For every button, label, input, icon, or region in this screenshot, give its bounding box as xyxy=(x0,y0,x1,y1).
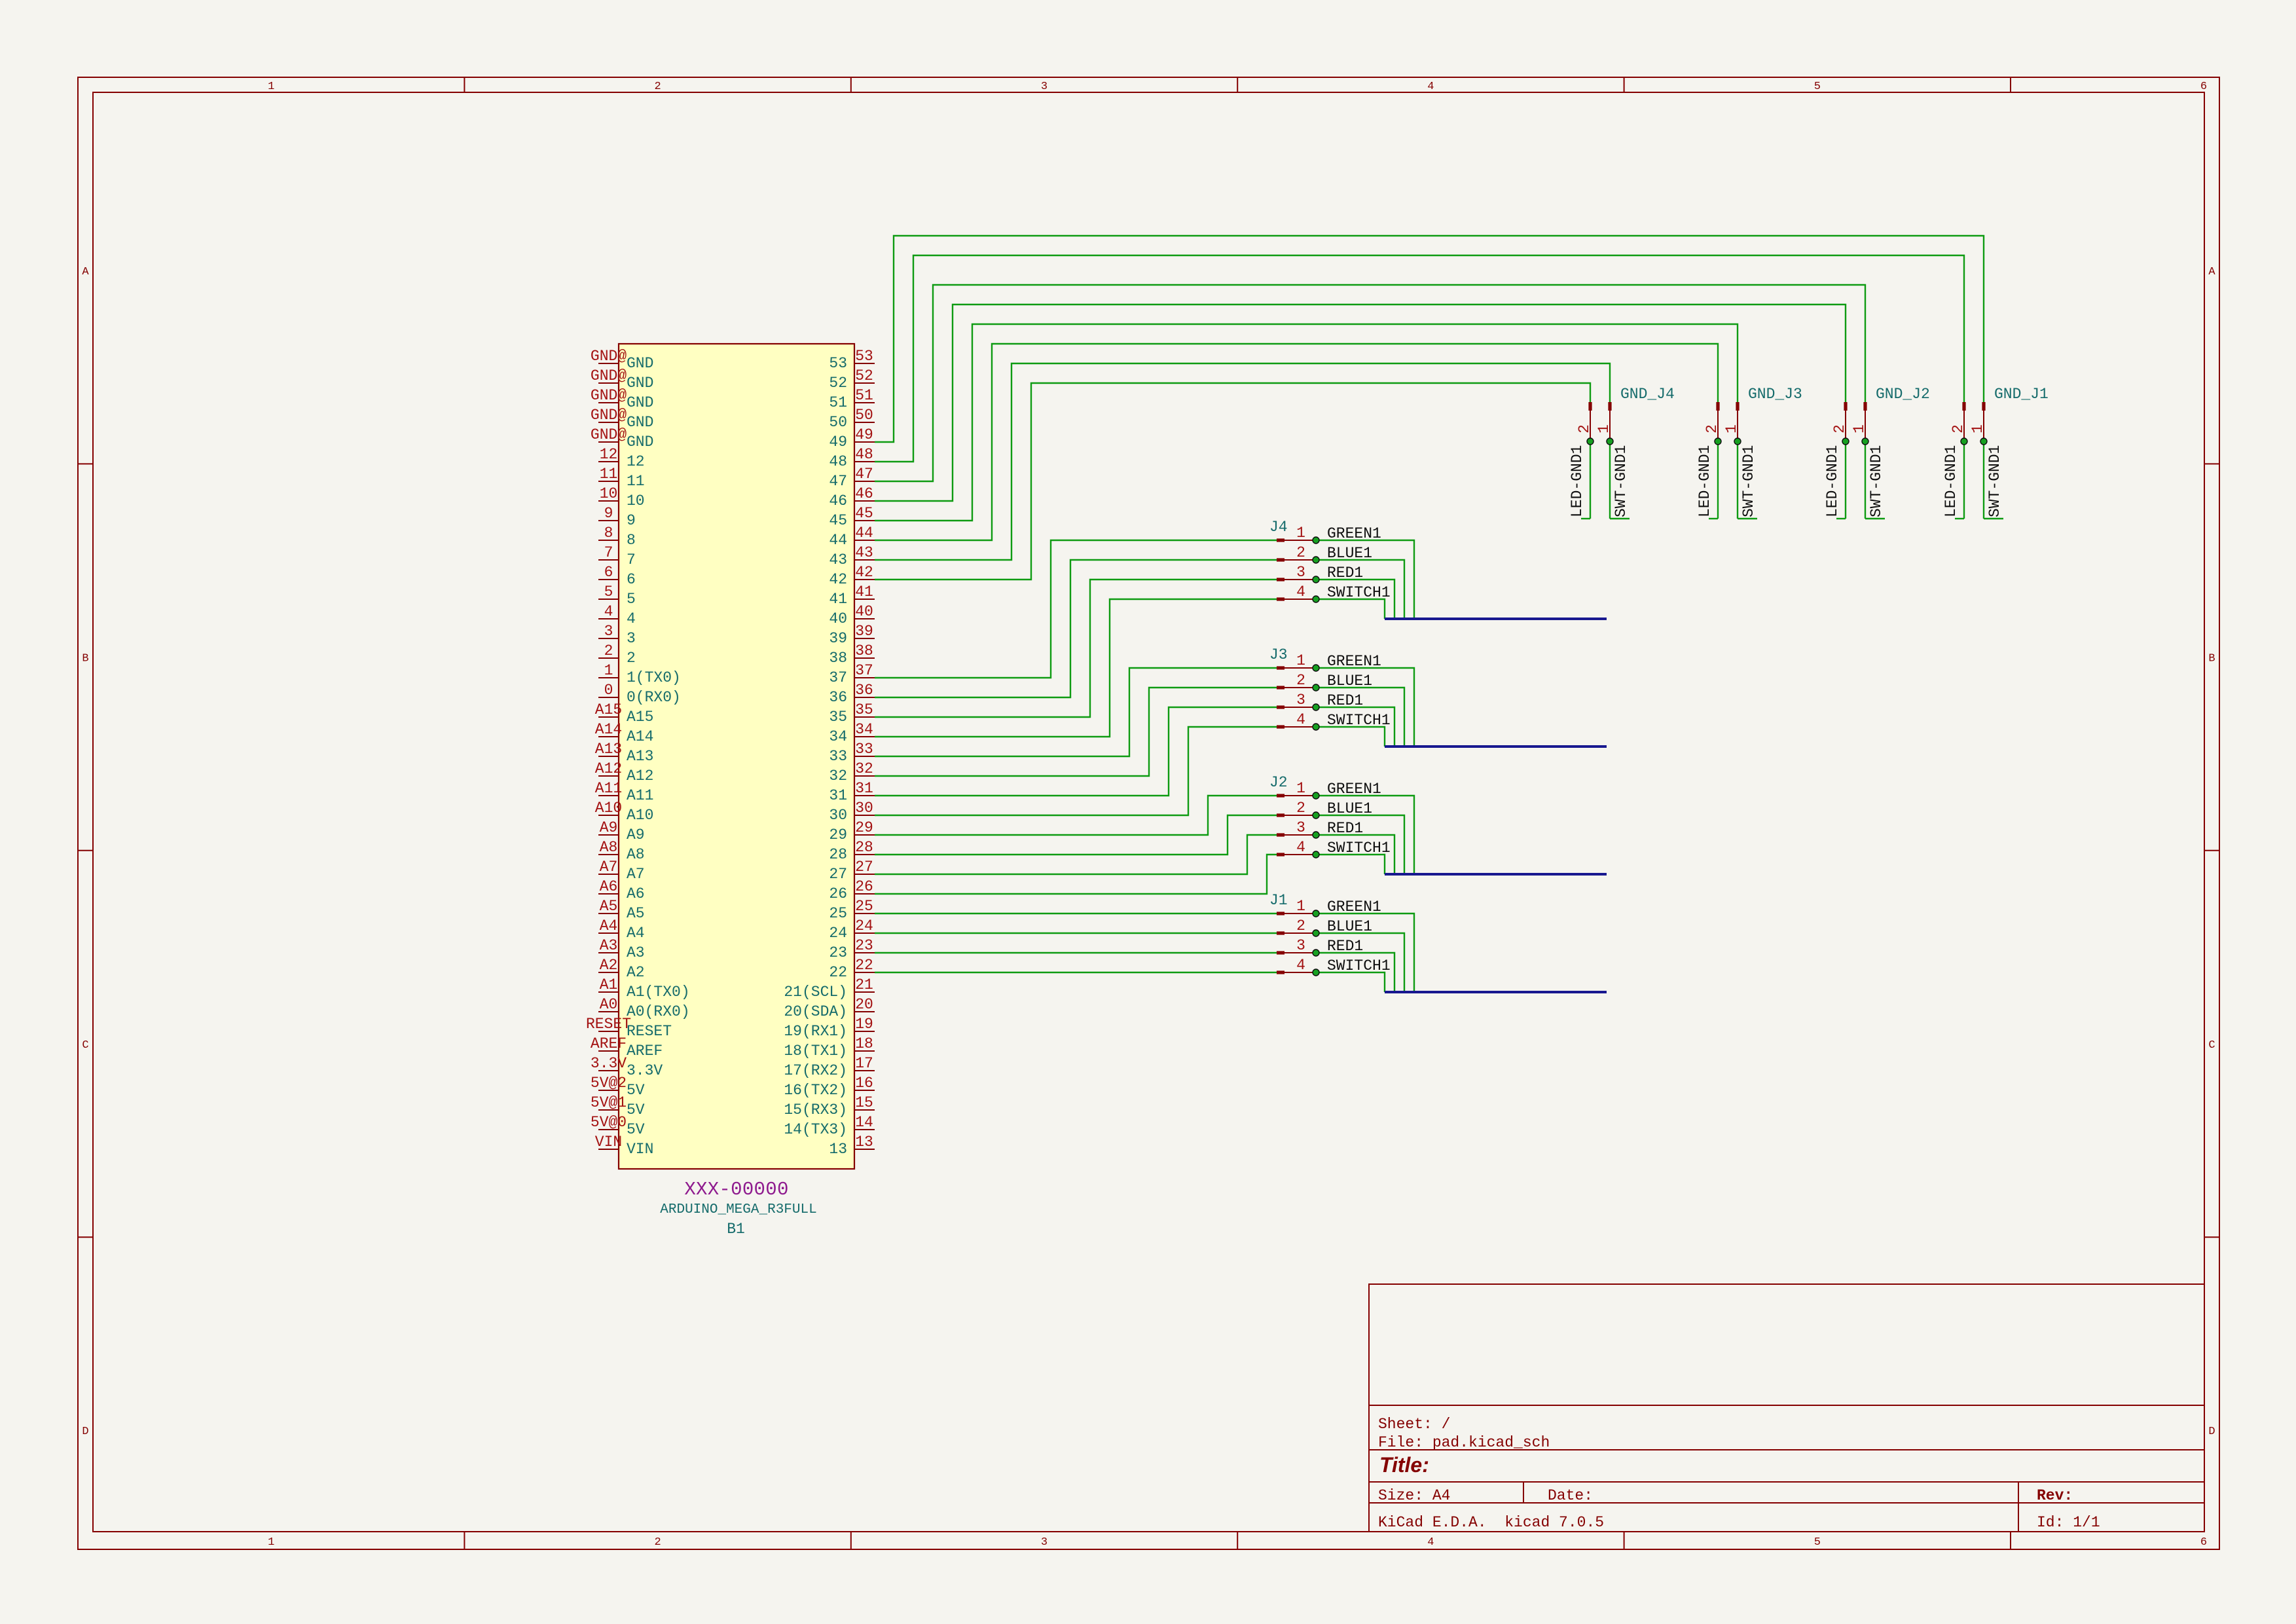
B1 right pin 19 (19(RX1)) xyxy=(854,1031,875,1032)
svg-text:26: 26 xyxy=(829,885,847,902)
svg-text:Sheet: /: Sheet: / xyxy=(1378,1416,1450,1433)
GND_J2 pin 1 xyxy=(1863,402,1867,411)
svg-text:30: 30 xyxy=(829,807,847,824)
svg-text:1: 1 xyxy=(1296,652,1305,669)
wire stub at SWT-GND1 label (GND_J1) xyxy=(1984,518,2003,519)
svg-text:3: 3 xyxy=(1296,564,1305,581)
svg-text:43: 43 xyxy=(829,551,847,568)
svg-text:D: D xyxy=(2208,1426,2215,1438)
wire pin49 to GND_J1 pin1 (SWT-GND1) xyxy=(875,236,1984,442)
svg-text:A6: A6 xyxy=(600,878,618,895)
B1 right pin 39 (39) xyxy=(854,638,875,639)
wire GND_J2 pin 1 to label xyxy=(1865,441,1866,519)
GND_J3 pin 2 xyxy=(1716,402,1719,411)
J2 pin 1 xyxy=(1277,794,1285,797)
wire GND_J1 pin 1 to label xyxy=(1983,441,1984,519)
svg-text:2: 2 xyxy=(1296,672,1305,689)
svg-text:A4: A4 xyxy=(600,917,618,934)
svg-text:20(SDA): 20(SDA) xyxy=(784,1003,847,1020)
svg-text:4: 4 xyxy=(1296,957,1305,974)
svg-text:10: 10 xyxy=(600,485,618,502)
svg-text:5: 5 xyxy=(1814,81,1821,93)
junction J2 pin 3 xyxy=(1313,832,1319,838)
B1 right pin 28 (28) xyxy=(854,854,875,855)
junction J4 pin 1 xyxy=(1313,537,1319,544)
B1 right pin 47 (47) xyxy=(854,481,875,482)
svg-text:1: 1 xyxy=(1296,898,1305,915)
svg-text:6: 6 xyxy=(2200,81,2207,93)
svg-text:A9: A9 xyxy=(627,826,645,843)
wire pin34 to J4 pin4 xyxy=(875,599,1277,737)
junction J3 pin 1 xyxy=(1313,665,1319,671)
svg-text:5: 5 xyxy=(1814,1536,1821,1549)
B1 right pin 25 (25) xyxy=(854,913,875,914)
wire pin28 to J2 pin2 xyxy=(875,815,1277,855)
svg-text:2: 2 xyxy=(654,81,661,93)
svg-text:3: 3 xyxy=(627,630,636,647)
svg-text:A5: A5 xyxy=(627,905,645,922)
svg-text:SWT-GND1: SWT-GND1 xyxy=(1868,445,1885,517)
wire J4 pin 1 to bus xyxy=(1316,540,1414,619)
svg-text:21(SCL): 21(SCL) xyxy=(784,984,847,1001)
wire stub at SWT-GND1 label (GND_J2) xyxy=(1865,518,1885,519)
B1 left pin A15 (A15) xyxy=(598,716,619,718)
wire pin33 to J3 pin1 xyxy=(875,668,1277,756)
svg-text:A14: A14 xyxy=(627,728,653,745)
wire J4 pin 4 to bus xyxy=(1316,599,1385,619)
wire pin30 to J3 pin4 xyxy=(875,727,1277,815)
junction J4 pin 3 xyxy=(1313,576,1319,583)
svg-text:7: 7 xyxy=(604,544,613,561)
svg-text:3: 3 xyxy=(1296,692,1305,709)
svg-text:23: 23 xyxy=(855,937,873,954)
svg-text:8: 8 xyxy=(627,532,636,549)
svg-text:3.3V: 3.3V xyxy=(627,1062,663,1079)
svg-text:A12: A12 xyxy=(595,760,622,777)
wire pin25 to J1 pin1 xyxy=(875,913,1277,914)
B1 left pin A1 (A1(TX0)) xyxy=(598,991,619,993)
svg-text:31: 31 xyxy=(855,780,873,797)
B1 left pin A5 (A5) xyxy=(598,913,619,914)
B1 right pin 52 (52) xyxy=(854,382,875,384)
B1 right pin 43 (43) xyxy=(854,559,875,561)
svg-text:45: 45 xyxy=(829,512,847,529)
svg-text:43: 43 xyxy=(855,544,873,561)
svg-text:B: B xyxy=(2208,653,2215,665)
junction J1 pin 1 xyxy=(1313,910,1319,917)
wire pin45 to GND_J3 pin1 (SWT-GND1) xyxy=(875,324,1738,521)
svg-text:29: 29 xyxy=(829,826,847,843)
B1 left pin GND@ (GND) xyxy=(598,382,619,384)
wire J2 pin 2 to bus xyxy=(1316,815,1404,874)
wire GND_J4 pin 2 to label xyxy=(1590,441,1591,519)
svg-text:9: 9 xyxy=(627,512,636,529)
B1 left pin A0 (A0(RX0)) xyxy=(598,1011,619,1012)
svg-text:12: 12 xyxy=(627,453,645,470)
svg-text:B: B xyxy=(82,653,88,665)
svg-text:27: 27 xyxy=(855,858,873,876)
svg-text:8: 8 xyxy=(604,525,613,542)
wire pin43 to GND_J4 pin1 (SWT-GND1) xyxy=(875,363,1610,560)
B1 right pin 18 (18(TX1)) xyxy=(854,1050,875,1052)
wire pin24 to J1 pin2 xyxy=(875,932,1277,934)
J4 pin 1 xyxy=(1277,538,1285,542)
svg-text:4: 4 xyxy=(627,610,636,627)
svg-text:J4: J4 xyxy=(1269,519,1288,536)
svg-text:1: 1 xyxy=(1296,780,1305,797)
svg-text:A2: A2 xyxy=(600,957,618,974)
B1 left pin A12 (A12) xyxy=(598,775,619,777)
svg-text:34: 34 xyxy=(829,728,847,745)
svg-text:Title:: Title: xyxy=(1379,1453,1429,1477)
svg-text:A0(RX0): A0(RX0) xyxy=(627,1003,690,1020)
svg-text:1(TX0): 1(TX0) xyxy=(627,669,681,686)
svg-text:34: 34 xyxy=(855,721,873,738)
svg-text:14(TX3): 14(TX3) xyxy=(784,1121,847,1138)
svg-text:35: 35 xyxy=(829,709,847,726)
frame column ticks top/bottom xyxy=(464,77,465,92)
svg-text:3: 3 xyxy=(1296,937,1305,954)
svg-text:18(TX1): 18(TX1) xyxy=(784,1043,847,1060)
B1 right pin 41 (41) xyxy=(854,599,875,600)
GND_J1 pin 2 xyxy=(1962,402,1965,411)
svg-text:48: 48 xyxy=(829,453,847,470)
svg-text:39: 39 xyxy=(855,623,873,640)
svg-text:3: 3 xyxy=(1041,1536,1048,1549)
wire stub at SWT-GND1 label (GND_J4) xyxy=(1610,518,1630,519)
svg-text:5V@0: 5V@0 xyxy=(591,1114,627,1131)
wire stub at SWT-GND1 label (GND_J3) xyxy=(1738,518,1757,519)
svg-text:29: 29 xyxy=(855,819,873,836)
junction J4 pin 2 xyxy=(1313,557,1319,563)
B1 left pin A2 (A2) xyxy=(598,972,619,973)
J1 pin 3 xyxy=(1277,951,1285,954)
svg-text:GND: GND xyxy=(627,375,653,392)
svg-text:9: 9 xyxy=(604,505,613,522)
wire J2 pin 4 to bus xyxy=(1316,855,1385,874)
wire pin26 to J2 pin4 xyxy=(875,855,1277,894)
wire pin44 to GND_J3 pin2 (LED-GND1) xyxy=(875,344,1718,540)
J4 pin 4 xyxy=(1277,597,1285,600)
svg-text:4: 4 xyxy=(1296,839,1305,856)
svg-text:11: 11 xyxy=(600,466,618,483)
svg-text:40: 40 xyxy=(829,610,847,627)
B1 left pin GND@ (GND) xyxy=(598,422,619,423)
svg-text:6: 6 xyxy=(627,571,636,588)
svg-text:28: 28 xyxy=(829,846,847,863)
svg-text:SWT-GND1: SWT-GND1 xyxy=(1986,445,2003,517)
J3 pin 3 xyxy=(1277,705,1285,709)
svg-text:45: 45 xyxy=(855,505,873,522)
svg-text:38: 38 xyxy=(829,650,847,667)
B1 left pin RESET (RESET) xyxy=(598,1031,619,1032)
B1 right pin 40 (40) xyxy=(854,618,875,619)
B1 left pin 8 (8) xyxy=(598,540,619,541)
svg-text:KiCad E.D.A. kicad 7.0.5: KiCad E.D.A. kicad 7.0.5 xyxy=(1378,1514,1604,1531)
svg-text:A: A xyxy=(82,266,89,278)
B1 left pin 6 (6) xyxy=(598,579,619,580)
svg-text:3: 3 xyxy=(1041,81,1048,93)
svg-text:37: 37 xyxy=(829,669,847,686)
junction J2 pin 1 xyxy=(1313,792,1319,799)
B1 left pin A10 (A10) xyxy=(598,815,619,816)
svg-text:A3: A3 xyxy=(600,937,618,954)
svg-text:33: 33 xyxy=(829,748,847,765)
svg-text:XXX-00000: XXX-00000 xyxy=(684,1179,788,1200)
wire J4 pin 2 to bus xyxy=(1316,560,1404,619)
svg-text:53: 53 xyxy=(855,348,873,365)
svg-text:10: 10 xyxy=(627,492,645,509)
junction J4 pin 4 xyxy=(1313,596,1319,602)
title block divider above KiCad row xyxy=(1369,1502,2204,1504)
svg-text:16(TX2): 16(TX2) xyxy=(784,1082,847,1099)
wire GND_J4 pin 1 to label xyxy=(1609,441,1611,519)
J1 pin 2 xyxy=(1277,931,1285,934)
B1 right pin 36 (36) xyxy=(854,697,875,698)
svg-text:1: 1 xyxy=(1595,424,1613,434)
B1 left pin A14 (A14) xyxy=(598,736,619,737)
svg-text:46: 46 xyxy=(855,485,873,502)
svg-text:GND: GND xyxy=(627,355,653,372)
B1 left pin 9 (9) xyxy=(598,520,619,521)
B1 right pin 23 (23) xyxy=(854,952,875,953)
svg-text:35: 35 xyxy=(855,701,873,718)
J1 pin 4 xyxy=(1277,970,1285,974)
svg-text:2: 2 xyxy=(627,650,636,667)
junction GND_J1 pin 2 xyxy=(1961,438,1967,445)
svg-text:ARDUINO_MEGA_R3FULL: ARDUINO_MEGA_R3FULL xyxy=(660,1202,816,1217)
svg-text:47: 47 xyxy=(829,473,847,490)
title block divider Rev/Id column xyxy=(2018,1482,2019,1532)
B1 left pin 3.3V (3.3V) xyxy=(598,1070,619,1071)
B1 right pin 49 (49) xyxy=(854,441,875,443)
svg-text:B1: B1 xyxy=(727,1221,745,1238)
svg-text:51: 51 xyxy=(829,394,847,411)
junction J3 pin 3 xyxy=(1313,704,1319,710)
B1 right pin 17 (17(RX2)) xyxy=(854,1070,875,1071)
svg-text:4: 4 xyxy=(604,603,613,620)
svg-text:37: 37 xyxy=(855,662,873,679)
svg-text:J1: J1 xyxy=(1269,892,1288,909)
wire stub at LED-GND1 label (GND_J1) xyxy=(1955,518,1964,519)
svg-text:5: 5 xyxy=(627,591,636,608)
B1 right pin 42 (42) xyxy=(854,579,875,580)
svg-text:D: D xyxy=(82,1426,88,1438)
wire J2 pin 3 to bus xyxy=(1316,835,1394,874)
wire J3 pin 1 to bus xyxy=(1316,668,1414,747)
B1 right pin 20 (20(SDA)) xyxy=(854,1011,875,1012)
svg-text:LED-GND1: LED-GND1 xyxy=(1942,445,1959,517)
svg-text:VIN: VIN xyxy=(627,1141,653,1158)
svg-text:C: C xyxy=(82,1039,88,1052)
wire pin42 to GND_J4 pin2 (LED-GND1) xyxy=(875,383,1590,580)
B1 right pin 21 (21(SCL)) xyxy=(854,991,875,993)
svg-text:A13: A13 xyxy=(627,748,653,765)
B1 right pin 13 (13) xyxy=(854,1149,875,1150)
wire pin27 to J2 pin3 xyxy=(875,835,1277,874)
J2 pin 4 xyxy=(1277,853,1285,856)
svg-text:38: 38 xyxy=(855,642,873,659)
junction GND_J3 pin 2 xyxy=(1715,438,1721,445)
svg-text:5V: 5V xyxy=(627,1101,645,1118)
svg-text:3.3V: 3.3V xyxy=(591,1055,627,1072)
GND_J1 pin 1 xyxy=(1982,402,1985,411)
bus below J1 xyxy=(1385,991,1607,993)
svg-text:1: 1 xyxy=(1969,424,1986,434)
B1 left pin A9 (A9) xyxy=(598,834,619,836)
svg-text:J3: J3 xyxy=(1269,646,1288,663)
svg-text:GND@: GND@ xyxy=(591,407,627,424)
svg-text:49: 49 xyxy=(855,426,873,443)
B1 right pin 44 (44) xyxy=(854,540,875,541)
wire pin22 to J1 pin4 xyxy=(875,972,1277,973)
svg-text:2: 2 xyxy=(1296,800,1305,817)
B1 left pin A13 (A13) xyxy=(598,756,619,757)
svg-text:A3: A3 xyxy=(627,944,645,961)
junction GND_J2 pin 1 xyxy=(1862,438,1868,445)
B1 left pin 0 (0(RX0)) xyxy=(598,697,619,698)
B1 right pin 31 (31) xyxy=(854,795,875,796)
wire stub at LED-GND1 label (GND_J2) xyxy=(1836,518,1846,519)
wire J2 pin 1 to bus xyxy=(1316,796,1414,874)
B1 left pin GND@ (GND) xyxy=(598,441,619,443)
bus below J4 xyxy=(1385,618,1607,620)
svg-text:7: 7 xyxy=(627,551,636,568)
svg-text:32: 32 xyxy=(855,760,873,777)
svg-text:5V: 5V xyxy=(627,1082,645,1099)
svg-text:42: 42 xyxy=(855,564,873,581)
wire J3 pin 4 to bus xyxy=(1316,727,1385,747)
wire pin47 to GND_J2 pin1 (SWT-GND1) xyxy=(875,285,1865,481)
svg-text:2: 2 xyxy=(654,1536,661,1549)
svg-text:4: 4 xyxy=(1427,81,1434,93)
wire stub at LED-GND1 label (GND_J4) xyxy=(1581,518,1590,519)
svg-text:Rev:: Rev: xyxy=(2037,1487,2073,1504)
svg-text:A7: A7 xyxy=(627,866,645,883)
svg-text:0: 0 xyxy=(604,682,613,699)
svg-text:31: 31 xyxy=(829,787,847,804)
svg-text:41: 41 xyxy=(855,583,873,600)
svg-text:32: 32 xyxy=(829,767,847,784)
svg-text:A1(TX0): A1(TX0) xyxy=(627,984,690,1001)
junction GND_J3 pin 1 xyxy=(1734,438,1741,445)
wire pin29 to J2 pin1 xyxy=(875,796,1277,835)
B1 left pin A11 (A11) xyxy=(598,795,619,796)
B1 right pin 35 (35) xyxy=(854,716,875,718)
junction J3 pin 2 xyxy=(1313,684,1319,691)
B1 left pin A3 (A3) xyxy=(598,952,619,953)
svg-text:1: 1 xyxy=(1723,424,1740,434)
B1 left pin AREF (AREF) xyxy=(598,1050,619,1052)
svg-text:53: 53 xyxy=(829,355,847,372)
svg-text:2: 2 xyxy=(1950,424,1967,434)
svg-text:Size: A4: Size: A4 xyxy=(1378,1487,1450,1504)
svg-text:GND: GND xyxy=(627,394,653,411)
B1 left pin 11 (11) xyxy=(598,481,619,482)
B1 left pin 12 (12) xyxy=(598,461,619,462)
svg-text:1: 1 xyxy=(268,1536,274,1549)
B1 right pin 53 (53) xyxy=(854,363,875,364)
svg-text:6: 6 xyxy=(2200,1536,2207,1549)
J2 pin 2 xyxy=(1277,813,1285,817)
B1 left pin 1 (1(TX0)) xyxy=(598,677,619,678)
svg-text:15(RX3): 15(RX3) xyxy=(784,1101,847,1118)
svg-text:J2: J2 xyxy=(1269,774,1288,791)
svg-text:RESET: RESET xyxy=(627,1023,672,1040)
svg-text:4: 4 xyxy=(1296,711,1305,728)
svg-text:4: 4 xyxy=(1427,1536,1434,1549)
wire J3 pin 2 to bus xyxy=(1316,688,1404,747)
title block divider above Sheet row xyxy=(1369,1405,2204,1406)
B1 right pin 32 (32) xyxy=(854,775,875,777)
svg-text:A10: A10 xyxy=(627,807,653,824)
svg-text:1: 1 xyxy=(604,662,613,679)
svg-text:12: 12 xyxy=(600,446,618,463)
svg-text:A8: A8 xyxy=(627,846,645,863)
B1 left pin 7 (7) xyxy=(598,559,619,561)
svg-text:30: 30 xyxy=(855,800,873,817)
svg-text:A7: A7 xyxy=(600,858,618,876)
svg-text:36: 36 xyxy=(829,689,847,706)
svg-text:AREF: AREF xyxy=(627,1043,663,1060)
wire J1 pin 3 to bus xyxy=(1316,953,1394,992)
svg-text:28: 28 xyxy=(855,839,873,856)
junction J1 pin 3 xyxy=(1313,950,1319,956)
B1 right pin 22 (22) xyxy=(854,972,875,973)
title block divider above Title row xyxy=(1369,1449,2204,1450)
svg-text:18: 18 xyxy=(855,1035,873,1052)
junction J1 pin 4 xyxy=(1313,969,1319,976)
B1 left pin 3 (3) xyxy=(598,638,619,639)
GND_J4 pin 1 xyxy=(1608,402,1611,411)
J3 pin 1 xyxy=(1277,666,1285,669)
svg-text:A11: A11 xyxy=(595,780,622,797)
junction GND_J1 pin 1 xyxy=(1980,438,1987,445)
svg-text:2: 2 xyxy=(1831,424,1848,434)
svg-text:GND@: GND@ xyxy=(591,367,627,384)
svg-text:25: 25 xyxy=(829,905,847,922)
B1 right pin 26 (26) xyxy=(854,893,875,895)
B1 left pin VIN (VIN) xyxy=(598,1149,619,1150)
svg-text:A12: A12 xyxy=(627,767,653,784)
svg-text:14: 14 xyxy=(855,1114,873,1131)
svg-text:23: 23 xyxy=(829,944,847,961)
svg-text:5: 5 xyxy=(604,583,613,600)
svg-text:33: 33 xyxy=(855,741,873,758)
wire J3 pin 3 to bus xyxy=(1316,707,1394,747)
svg-text:19: 19 xyxy=(855,1016,873,1033)
svg-text:25: 25 xyxy=(855,898,873,915)
GND_J4 pin 2 xyxy=(1588,402,1592,411)
J1 pin 1 xyxy=(1277,912,1285,915)
title block divider Size/Date xyxy=(1523,1482,1524,1503)
wire GND_J1 pin 2 to label xyxy=(1963,441,1965,519)
J2 pin 3 xyxy=(1277,833,1285,836)
svg-text:LED-GND1: LED-GND1 xyxy=(1824,445,1841,517)
J4 pin 2 xyxy=(1277,558,1285,561)
svg-text:C: C xyxy=(2208,1039,2215,1052)
B1 left pin 10 (10) xyxy=(598,500,619,502)
B1 right pin 30 (30) xyxy=(854,815,875,816)
svg-text:44: 44 xyxy=(855,525,873,542)
B1 left pin 2 (2) xyxy=(598,657,619,659)
svg-text:VIN: VIN xyxy=(595,1134,622,1151)
frame row ticks left/right xyxy=(78,463,93,464)
B1 left pin A7 (A7) xyxy=(598,874,619,875)
svg-text:GND: GND xyxy=(627,434,653,451)
svg-text:39: 39 xyxy=(829,630,847,647)
svg-text:GND_J1: GND_J1 xyxy=(1994,386,2049,403)
